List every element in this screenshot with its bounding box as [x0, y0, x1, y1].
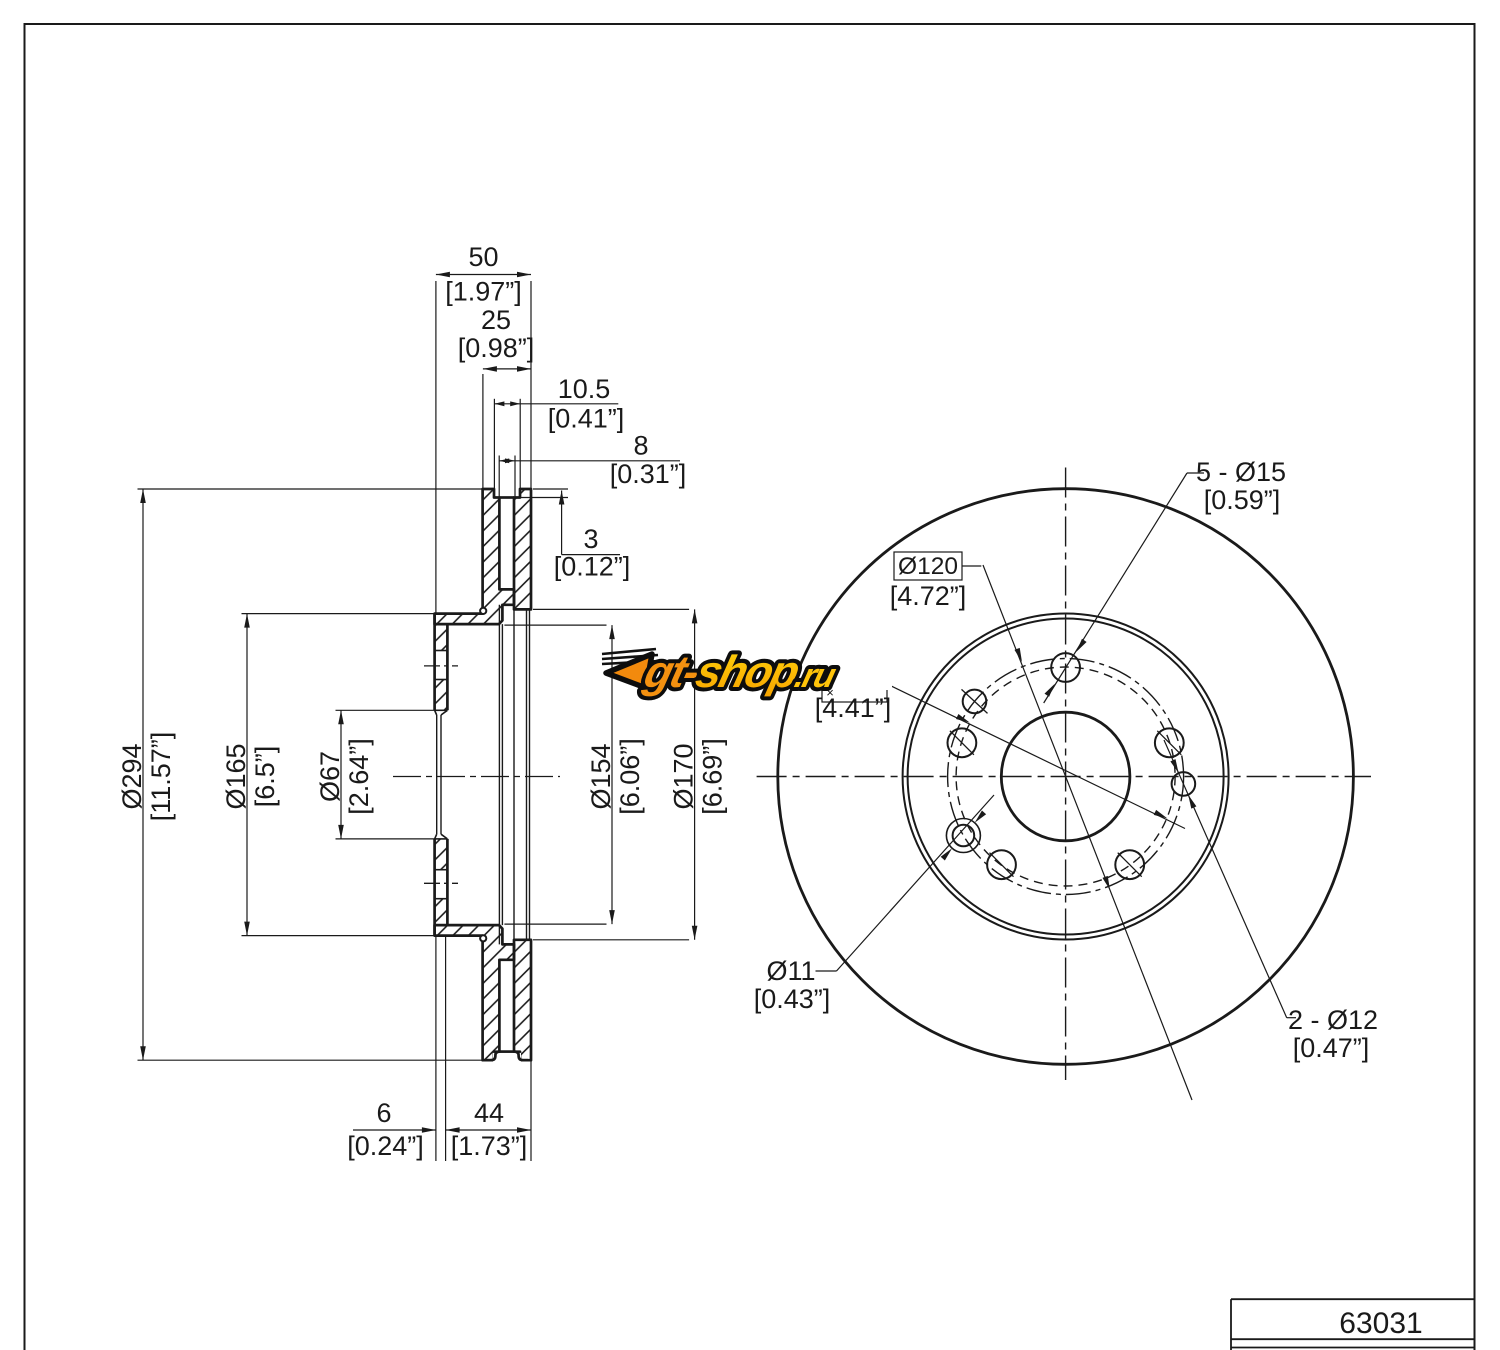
svg-text:10.5: 10.5	[558, 374, 611, 404]
svg-text:[0.24”]: [0.24”]	[347, 1131, 424, 1161]
svg-text:Ø11: Ø11	[766, 956, 815, 986]
svg-text:gt-shop.ru: gt-shop.ru	[639, 647, 843, 697]
svg-text:[11.57”]: [11.57”]	[146, 732, 176, 822]
svg-text:5 - Ø15: 5 - Ø15	[1196, 457, 1286, 487]
svg-text:6: 6	[376, 1098, 391, 1128]
svg-text:[0.98”]: [0.98”]	[458, 333, 535, 363]
svg-text:[0.47”]: [0.47”]	[1293, 1033, 1370, 1063]
svg-text:Ø67: Ø67	[315, 751, 345, 802]
svg-text:[1.97”]: [1.97”]	[445, 277, 522, 307]
svg-text:3: 3	[583, 524, 598, 554]
svg-text:[6.69”]: [6.69”]	[698, 738, 728, 815]
svg-text:[6.06”]: [6.06”]	[615, 738, 645, 815]
svg-text:44: 44	[474, 1098, 504, 1128]
svg-text:2 - Ø12: 2 - Ø12	[1288, 1005, 1378, 1035]
svg-text:Ø294: Ø294	[117, 743, 147, 809]
svg-text:[4.72”]: [4.72”]	[890, 581, 967, 611]
svg-text:25: 25	[481, 305, 511, 335]
svg-text:Ø170: Ø170	[669, 743, 699, 809]
svg-text:[1.73”]: [1.73”]	[451, 1131, 528, 1161]
svg-text:63031: 63031	[1339, 1307, 1422, 1340]
svg-text:[0.59”]: [0.59”]	[1204, 485, 1281, 515]
svg-text:[0.31”]: [0.31”]	[610, 459, 687, 489]
svg-text:Ø120: Ø120	[898, 553, 958, 580]
svg-text:[0.41”]: [0.41”]	[548, 404, 625, 434]
svg-text:8: 8	[633, 431, 648, 461]
svg-text:[0.12”]: [0.12”]	[554, 552, 631, 582]
svg-text:[6.5”]: [6.5”]	[250, 746, 280, 808]
svg-text:Ø165: Ø165	[221, 743, 251, 809]
svg-text:[0.43”]: [0.43”]	[754, 984, 831, 1014]
svg-text:Ø154: Ø154	[586, 743, 616, 809]
svg-text:50: 50	[468, 242, 498, 272]
svg-text:[2.64”]: [2.64”]	[344, 738, 374, 815]
